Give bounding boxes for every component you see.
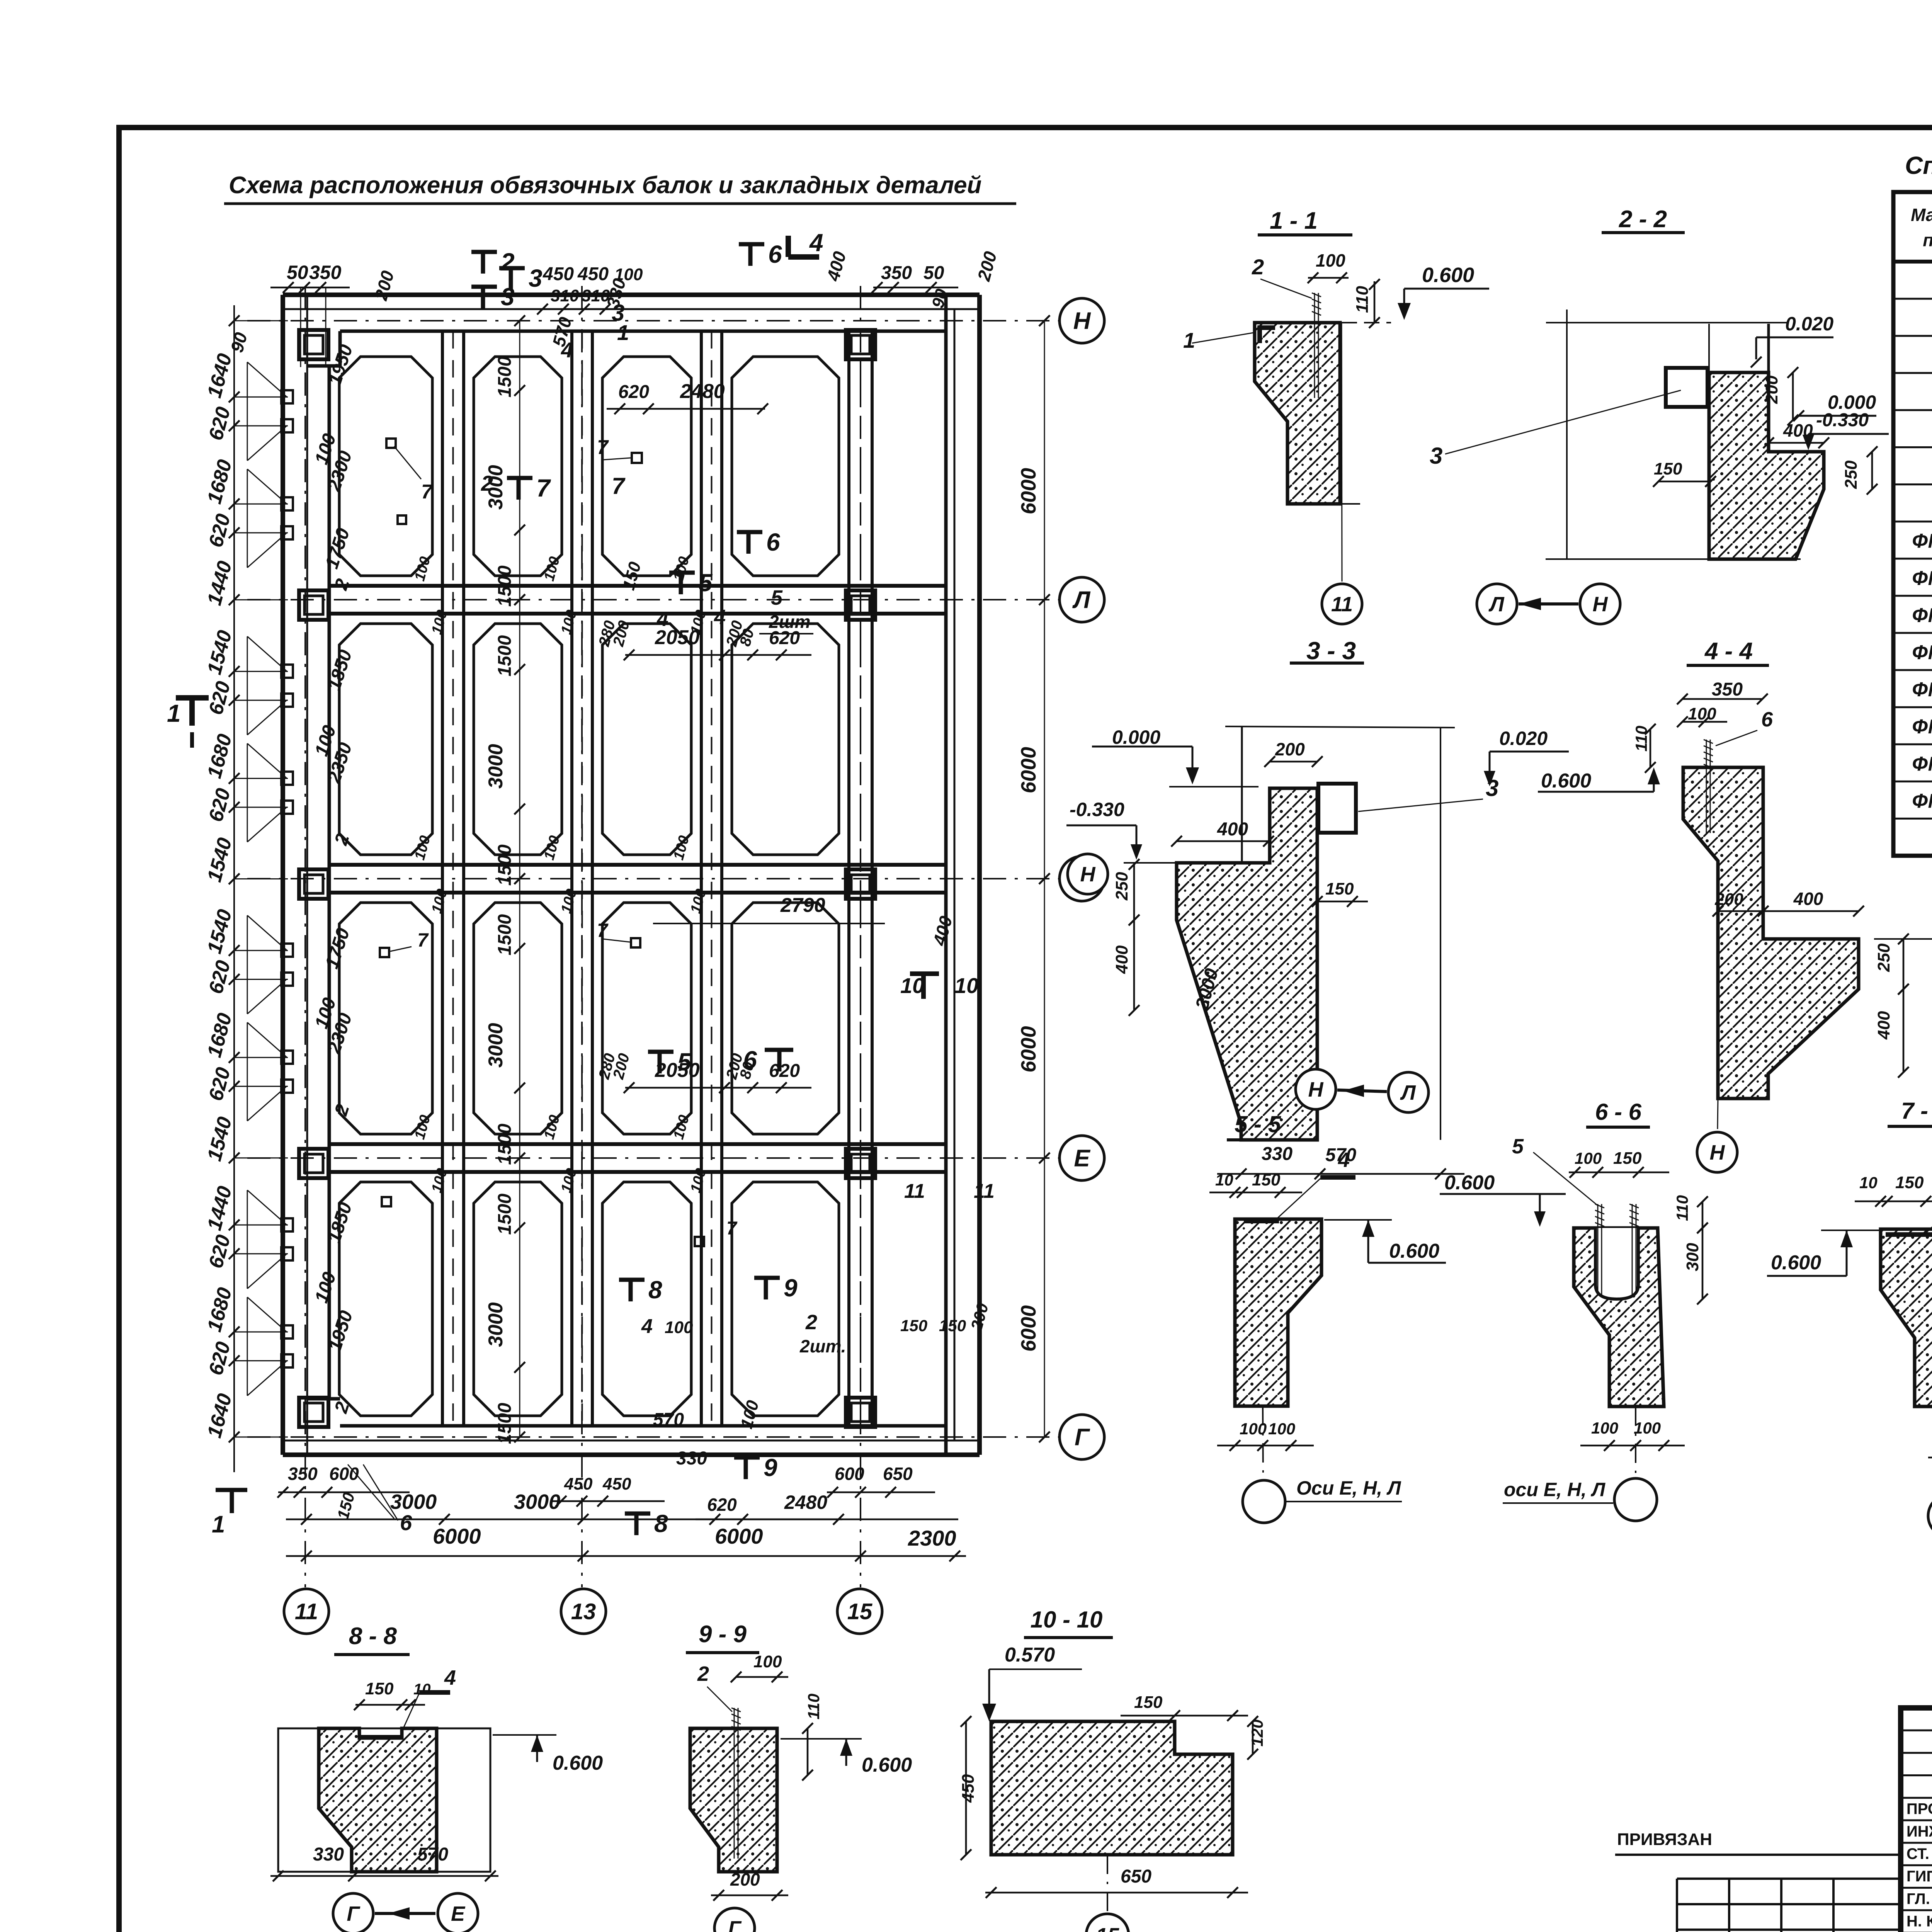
axis circle Г	[1060, 1415, 1104, 1459]
svg-text:1: 1	[167, 699, 181, 727]
svg-text:400: 400	[1783, 420, 1813, 440]
plan: outer wall top	[283, 293, 980, 297]
svg-text:Н. КОНТР.: Н. КОНТР.	[1906, 1913, 1932, 1930]
plan: horizontal axis dash-dot lines	[247, 320, 1060, 321]
svg-text:Н: Н	[1593, 593, 1608, 616]
svg-text:7: 7	[417, 929, 429, 951]
circle N left of 3-3	[1068, 854, 1108, 894]
svg-text:0.000: 0.000	[1112, 726, 1160, 748]
svg-text:110: 110	[1673, 1195, 1691, 1221]
svg-text:5: 5	[771, 586, 783, 609]
svg-text:450: 450	[543, 264, 574, 284]
svg-text:650: 650	[1121, 1866, 1151, 1887]
svg-text:Н: Н	[1073, 308, 1091, 335]
svg-text:620: 620	[769, 628, 800, 648]
circles G-E under 8-8	[333, 1893, 373, 1932]
plan: 1500/3000/1500 vertical chains	[519, 321, 520, 1437]
svg-text:150: 150	[1252, 1170, 1281, 1189]
svg-text:450: 450	[564, 1475, 593, 1493]
svg-text:2шт.: 2шт.	[799, 1336, 846, 1356]
svg-text:0.020: 0.020	[1499, 728, 1548, 749]
svg-text:300: 300	[1683, 1243, 1702, 1271]
svg-text:1 - 1: 1 - 1	[1270, 207, 1318, 234]
svg-text:15: 15	[1096, 1924, 1119, 1932]
plan row1 annotations	[632, 453, 642, 463]
svg-text:1500: 1500	[495, 635, 515, 677]
svg-text:7: 7	[612, 473, 626, 499]
svg-text:11: 11	[1331, 593, 1353, 616]
plan: outer wall right	[977, 295, 982, 1455]
svg-text:2480: 2480	[784, 1492, 827, 1513]
svg-text:150: 150	[900, 1316, 927, 1335]
svg-text:Г: Г	[1075, 1424, 1090, 1451]
axis circle Н	[1060, 298, 1104, 343]
svg-text:ФМЕ8: ФМЕ8	[1912, 790, 1932, 812]
svg-text:11: 11	[904, 1180, 925, 1202]
svg-text:поз.: поз.	[1923, 230, 1932, 250]
circle N under 4-4	[1697, 1132, 1737, 1172]
plan: outer wall left	[281, 295, 285, 1455]
plan: diagonal leader bundles left	[247, 362, 287, 397]
circle 13 under 7-7	[1928, 1495, 1932, 1537]
svg-text:100: 100	[665, 1318, 693, 1337]
section 2-2	[1546, 322, 1788, 323]
svg-text:3: 3	[1486, 775, 1498, 801]
svg-text:15: 15	[847, 1599, 872, 1624]
svg-text:2: 2	[697, 1662, 709, 1685]
svg-text:10: 10	[413, 1681, 431, 1698]
svg-text:620: 620	[618, 382, 649, 402]
circle G under 9-9	[714, 1908, 755, 1932]
svg-text:1500: 1500	[495, 1124, 515, 1165]
svg-text:ИНЖ.: ИНЖ.	[1906, 1823, 1932, 1840]
svg-text:4: 4	[714, 605, 726, 629]
svg-text:7: 7	[726, 1218, 738, 1239]
svg-text:3000: 3000	[485, 1302, 507, 1347]
svg-text:10 - 10: 10 - 10	[1031, 1607, 1103, 1633]
svg-text:8: 8	[654, 1510, 668, 1537]
svg-text:3000: 3000	[514, 1490, 560, 1514]
svg-text:150: 150	[939, 1316, 966, 1335]
svg-text:1500: 1500	[495, 844, 515, 886]
svg-text:4: 4	[561, 338, 573, 362]
svg-text:350: 350	[288, 1464, 318, 1484]
svg-text:4: 4	[1338, 1148, 1350, 1172]
svg-text:0.600: 0.600	[1444, 1172, 1495, 1194]
svg-text:7: 7	[597, 920, 609, 941]
svg-text:150: 150	[365, 1679, 394, 1698]
svg-text:1: 1	[617, 320, 629, 345]
svg-text:2: 2	[805, 1311, 817, 1334]
svg-text:150: 150	[1895, 1173, 1924, 1192]
plan: embedded plates on left wall	[281, 390, 293, 403]
svg-text:ФМЕ6: ФМЕ6	[1912, 716, 1932, 738]
svg-text:10: 10	[900, 973, 924, 998]
svg-text:250: 250	[1842, 460, 1861, 489]
svg-text:1500: 1500	[495, 565, 515, 607]
svg-text:400: 400	[1112, 945, 1131, 974]
svg-text:330: 330	[676, 1448, 707, 1469]
axis circle Л	[1060, 577, 1104, 622]
axis circle Е	[1060, 1136, 1104, 1180]
plan: columns (10)	[299, 330, 328, 359]
svg-text:7: 7	[536, 474, 551, 502]
svg-text:ФМЕ7: ФМЕ7	[1912, 753, 1932, 775]
svg-text:6: 6	[768, 240, 782, 268]
svg-text:570: 570	[653, 1410, 684, 1430]
svg-text:1: 1	[1183, 328, 1195, 352]
svg-text:450: 450	[959, 1774, 978, 1803]
section 3-3	[1225, 726, 1455, 728]
svg-text:6: 6	[400, 1510, 412, 1535]
section 1-1 concrete	[1255, 323, 1340, 504]
svg-text:СТ. ИНЖ.: СТ. ИНЖ.	[1906, 1845, 1932, 1862]
svg-text:0.600: 0.600	[1541, 770, 1591, 792]
svg-text:10: 10	[1215, 1171, 1233, 1189]
svg-text:3: 3	[1430, 443, 1442, 469]
svg-text:5: 5	[1512, 1135, 1524, 1158]
svg-text:400: 400	[1217, 819, 1248, 840]
svg-text:0.600: 0.600	[1771, 1252, 1821, 1274]
svg-text:0.600: 0.600	[1422, 264, 1474, 287]
pos1 corner angle	[1257, 325, 1275, 343]
svg-text:-0.330: -0.330	[1070, 799, 1124, 820]
svg-text:8: 8	[648, 1276, 662, 1304]
axis circle 13	[561, 1589, 606, 1634]
axis circle 15	[837, 1589, 882, 1634]
svg-text:4: 4	[444, 1666, 456, 1689]
svg-text:Л: Л	[1072, 587, 1091, 614]
svg-text:ГИП: ГИП	[1906, 1868, 1932, 1885]
svg-text:9: 9	[764, 1454, 777, 1481]
svg-text:3000: 3000	[485, 744, 507, 789]
svg-text:200: 200	[730, 1869, 760, 1889]
svg-text:200: 200	[1275, 739, 1305, 759]
svg-text:620: 620	[769, 1061, 800, 1081]
svg-text:620: 620	[707, 1495, 737, 1515]
svg-text:Г: Г	[728, 1917, 742, 1932]
svg-text:2050: 2050	[655, 1059, 700, 1082]
svg-text:200: 200	[1714, 890, 1743, 909]
svg-text:Схема расположения обвязочны: Схема расположения обвязочных балок и за…	[229, 172, 981, 199]
svg-text:9 - 9: 9 - 9	[699, 1621, 747, 1648]
svg-text:100: 100	[1688, 704, 1716, 723]
svg-text:250: 250	[1112, 872, 1131, 901]
svg-text:100: 100	[1634, 1419, 1661, 1437]
svg-text:9: 9	[784, 1274, 798, 1302]
svg-text:Е: Е	[1074, 1145, 1090, 1172]
svg-text:1500: 1500	[495, 914, 515, 956]
svg-text:2300: 2300	[908, 1526, 956, 1550]
svg-text:6000: 6000	[1017, 1026, 1040, 1072]
svg-text:2 - 2: 2 - 2	[1619, 206, 1667, 233]
svg-text:Л: Л	[1488, 593, 1505, 616]
svg-text:ГЛ. КОНСТ.: ГЛ. КОНСТ.	[1906, 1890, 1932, 1907]
svg-text:Марка,: Марка,	[1911, 205, 1932, 225]
plan: right 6000 dims	[1044, 321, 1045, 1437]
svg-text:Н: Н	[1710, 1141, 1725, 1164]
svg-text:150: 150	[1654, 459, 1682, 478]
svg-text:11: 11	[974, 1180, 995, 1202]
svg-text:1500: 1500	[495, 356, 515, 398]
svg-text:10: 10	[1859, 1173, 1878, 1192]
svg-text:450: 450	[602, 1475, 631, 1493]
svg-text:Н: Н	[1080, 863, 1096, 886]
spec table grid	[1893, 192, 1932, 856]
svg-text:150: 150	[1325, 879, 1354, 898]
svg-text:600: 600	[329, 1464, 359, 1484]
svg-text:Н: Н	[1308, 1078, 1324, 1101]
svg-text:0.020: 0.020	[1785, 313, 1833, 335]
svg-text:570: 570	[417, 1844, 448, 1865]
plan: internal vertical wall strips	[441, 331, 444, 1426]
svg-text:13: 13	[571, 1599, 596, 1624]
circles L-N under 2-2	[1477, 584, 1517, 624]
section marker 1 (bottom)	[216, 1488, 247, 1492]
svg-text:400: 400	[1793, 889, 1823, 909]
svg-text:50: 50	[923, 263, 944, 283]
svg-text:1: 1	[212, 1511, 225, 1538]
svg-text:200: 200	[1762, 375, 1781, 404]
svg-text:350: 350	[309, 262, 342, 283]
axis circle Н	[1060, 856, 1104, 901]
plan row4 annotations	[629, 1280, 633, 1301]
svg-text:ФМЕ5: ФМЕ5	[1912, 679, 1932, 701]
svg-text:Л: Л	[1400, 1081, 1416, 1104]
svg-text:2050: 2050	[655, 626, 700, 649]
svg-text:5: 5	[699, 569, 713, 597]
svg-text:3000: 3000	[485, 1023, 507, 1068]
svg-text:оси Е, Н, Л: оси Е, Н, Л	[1504, 1479, 1606, 1500]
svg-text:8 - 8: 8 - 8	[349, 1623, 397, 1650]
svg-text:1500: 1500	[495, 1403, 515, 1444]
svg-text:100: 100	[1575, 1149, 1602, 1167]
svg-text:100: 100	[1316, 250, 1345, 270]
svg-text:0.600: 0.600	[1389, 1240, 1439, 1262]
plan: left dimension chain	[233, 305, 235, 1472]
anchor bolt pos2	[1314, 293, 1315, 398]
svg-text:2: 2	[481, 471, 493, 495]
svg-text:0.600: 0.600	[553, 1752, 603, 1774]
svg-text:6: 6	[766, 528, 780, 556]
plan: vertical axis dash-dot lines 11,13,15	[304, 286, 306, 1587]
svg-text:10: 10	[954, 973, 978, 998]
svg-text:5 - 5: 5 - 5	[1235, 1111, 1282, 1137]
svg-text:Оси Е, Н, Л: Оси Е, Н, Л	[1296, 1477, 1401, 1499]
svg-text:3: 3	[529, 264, 543, 292]
svg-text:3000: 3000	[390, 1490, 437, 1514]
svg-text:250: 250	[1874, 943, 1893, 972]
svg-text:Е: Е	[451, 1902, 466, 1925]
svg-text:ФМЕ4: ФМЕ4	[1912, 641, 1932, 664]
svg-text:7 - 7: 7 - 7	[1901, 1098, 1932, 1124]
svg-text:4: 4	[809, 229, 823, 257]
svg-text:600: 600	[835, 1464, 864, 1484]
svg-text:50: 50	[287, 262, 308, 283]
svg-text:Спецификация закладных д: Спецификация закладных деталей фундамент…	[1905, 151, 1932, 179]
svg-text:2480: 2480	[680, 380, 725, 403]
svg-text:1500: 1500	[495, 1194, 515, 1235]
svg-text:400: 400	[1874, 1011, 1893, 1040]
axis circle 11	[284, 1589, 329, 1634]
svg-text:6000: 6000	[1017, 468, 1040, 514]
svg-text:310: 310	[551, 286, 579, 305]
svg-text:450: 450	[577, 264, 609, 284]
svg-text:ФМЕ3: ФМЕ3	[1912, 604, 1932, 627]
svg-text:650: 650	[883, 1464, 913, 1484]
svg-text:100: 100	[753, 1652, 782, 1671]
svg-text:ФМЕ1: ФМЕ1	[1912, 530, 1932, 553]
svg-text:110: 110	[1353, 286, 1372, 313]
svg-text:0.600: 0.600	[862, 1754, 912, 1776]
svg-text:3 - 3: 3 - 3	[1306, 637, 1356, 665]
svg-text:110: 110	[1632, 726, 1650, 752]
svg-text:ФМЕ2: ФМЕ2	[1912, 567, 1932, 590]
circles N-L under 3-3	[1296, 1069, 1336, 1109]
svg-text:110: 110	[804, 1694, 823, 1719]
svg-text:7: 7	[597, 436, 609, 459]
svg-text:150: 150	[1134, 1693, 1163, 1712]
svg-text:350: 350	[881, 263, 912, 283]
svg-text:6000: 6000	[1017, 1305, 1040, 1352]
svg-text:2: 2	[1252, 255, 1264, 279]
plan: cell floor outlines	[339, 357, 432, 576]
svg-text:6000: 6000	[433, 1524, 481, 1548]
circle 11 under 1-1	[1322, 584, 1362, 624]
svg-text:100: 100	[1268, 1420, 1295, 1438]
svg-text:-0.330: -0.330	[1816, 410, 1869, 430]
svg-text:11: 11	[295, 1599, 318, 1624]
plan: outer wall bottom	[283, 1452, 980, 1457]
svg-text:2790: 2790	[780, 894, 825, 917]
svg-text:7: 7	[421, 481, 433, 503]
svg-text:4 - 4: 4 - 4	[1704, 638, 1753, 665]
svg-text:6 - 6: 6 - 6	[1595, 1099, 1642, 1125]
svg-text:Г: Г	[347, 1902, 361, 1925]
svg-text:6000: 6000	[1017, 747, 1040, 793]
svg-text:330: 330	[313, 1844, 344, 1865]
plan: internal horizontal wall rows	[329, 584, 946, 588]
circle 15 under 10-10	[1086, 1914, 1129, 1932]
svg-text:350: 350	[1712, 679, 1743, 700]
section marker 1 (left)	[176, 695, 209, 701]
title block	[1901, 1708, 1932, 1932]
svg-text:ПРОВЕР.: ПРОВЕР.	[1906, 1801, 1932, 1818]
svg-text:330: 330	[1262, 1144, 1293, 1164]
svg-text:6: 6	[1761, 708, 1773, 731]
svg-text:4: 4	[641, 1315, 653, 1338]
svg-text:6000: 6000	[715, 1524, 763, 1548]
svg-text:100: 100	[1591, 1419, 1618, 1437]
svg-text:150: 150	[1613, 1149, 1642, 1168]
svg-text:ПРИВЯЗАН: ПРИВЯЗАН	[1617, 1830, 1712, 1849]
svg-text:0.570: 0.570	[1005, 1644, 1055, 1666]
